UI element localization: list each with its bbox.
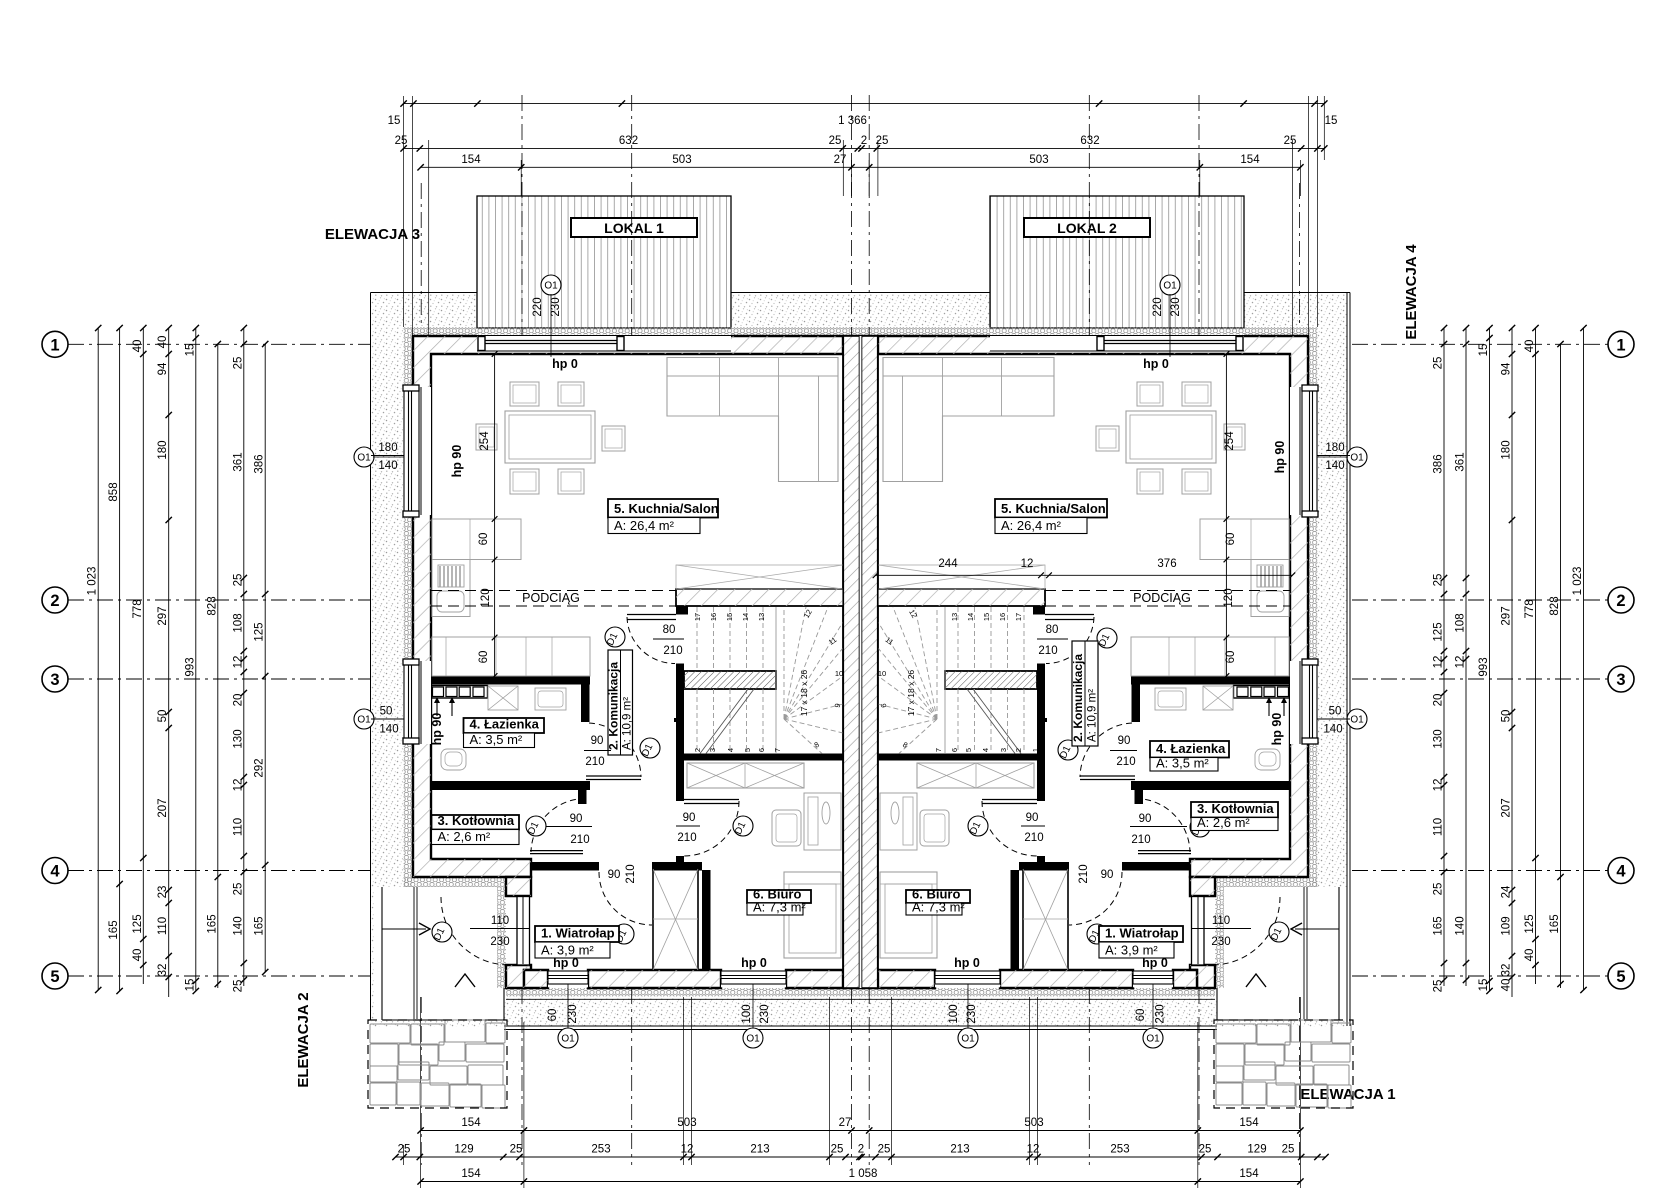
svg-text:110: 110: [232, 818, 244, 836]
insulation layer: [404, 327, 862, 336]
svg-text:hp 90: hp 90: [1273, 441, 1287, 474]
svg-text:154: 154: [1239, 1117, 1259, 1129]
stair treads lower flight: [696, 689, 698, 753]
room label wiatrolap right: [1099, 926, 1183, 942]
lazienka cabinet X: [488, 686, 518, 710]
svg-text:O1: O1: [544, 281, 558, 292]
svg-text:15: 15: [1478, 979, 1490, 992]
svg-text:A: 3,5 m²: A: 3,5 m²: [470, 732, 523, 747]
exterior walls: [413, 336, 843, 877]
svg-text:20: 20: [1433, 694, 1445, 707]
svg-text:17: 17: [1014, 613, 1023, 621]
svg-text:154: 154: [461, 154, 481, 166]
svg-text:230: 230: [567, 1004, 579, 1023]
lazienka door arc: [589, 723, 641, 777]
facade window W2 50/140: [404, 661, 431, 744]
bottom extension lines: [420, 997, 422, 1188]
band boundary: [371, 292, 478, 294]
window/door reference circles: [541, 275, 561, 295]
stair break line: [700, 689, 748, 754]
svg-text:2. Komunikacja: 2. Komunikacja: [607, 662, 621, 750]
svg-text:15: 15: [388, 115, 401, 127]
svg-text:125: 125: [254, 622, 266, 641]
svg-text:10: 10: [835, 669, 843, 678]
lazienka door leaf open: [586, 775, 641, 777]
svg-text:7: 7: [934, 748, 943, 752]
svg-text:108: 108: [232, 613, 244, 632]
porch step edge lines: [413, 887, 415, 1019]
svg-text:154: 154: [1239, 1168, 1259, 1180]
svg-text:90: 90: [608, 869, 621, 881]
svg-text:25: 25: [1199, 1144, 1212, 1156]
svg-text:32: 32: [157, 964, 169, 977]
door 80 arc (kitchen to stairs corridor): [627, 617, 675, 664]
svg-text:4: 4: [726, 748, 735, 752]
svg-text:PODCIĄG: PODCIĄG: [522, 591, 580, 605]
svg-text:165: 165: [206, 914, 218, 933]
window dim texts right wall: [1317, 455, 1350, 457]
svg-text:180: 180: [1501, 440, 1513, 459]
chairs: [510, 382, 539, 406]
stair winder treads (dashed fan): [783, 607, 785, 719]
svg-text:ELEWACJA 4: ELEWACJA 4: [1403, 244, 1420, 340]
top sliding window O1 220/230: [990, 335, 1244, 353]
svg-text:100: 100: [948, 1004, 960, 1023]
svg-text:hp 90: hp 90: [1270, 713, 1284, 746]
lazienka vanity: [432, 686, 488, 699]
svg-text:154: 154: [1240, 154, 1260, 166]
svg-text:210: 210: [625, 864, 637, 883]
svg-text:140: 140: [1323, 724, 1342, 736]
svg-text:14: 14: [966, 613, 975, 621]
biuro desk: [804, 793, 841, 850]
svg-text:230: 230: [490, 936, 509, 948]
svg-text:O1: O1: [961, 1034, 975, 1045]
partition kotlownia east: [578, 790, 587, 804]
room label komunikacja right: [1072, 641, 1098, 746]
svg-text:253: 253: [591, 1144, 610, 1156]
svg-text:hp 90: hp 90: [450, 445, 464, 478]
svg-text:40: 40: [132, 949, 144, 962]
svg-text:LOKAL 1: LOKAL 1: [604, 220, 664, 236]
right terrace: [990, 196, 1244, 328]
svg-text:15: 15: [184, 979, 196, 992]
svg-text:4: 4: [50, 863, 60, 881]
svg-text:5: 5: [743, 748, 752, 752]
svg-text:12: 12: [1455, 656, 1467, 669]
svg-text:165: 165: [108, 920, 120, 939]
svg-text:A: 26,4 m²: A: 26,4 m²: [1001, 518, 1062, 533]
svg-text:1 058: 1 058: [849, 1168, 878, 1180]
svg-text:25: 25: [232, 883, 244, 896]
right dimension columns: [1443, 328, 1445, 986]
window dim texts left wall: [371, 455, 404, 457]
svg-text:25: 25: [232, 357, 244, 370]
stair treads upper flight: [696, 607, 698, 671]
paving stones: [1216, 1024, 1256, 1043]
svg-text:3. Kotłownia: 3. Kotłownia: [438, 813, 515, 828]
svg-text:1. Wiatrołap: 1. Wiatrołap: [541, 926, 615, 941]
svg-text:297: 297: [1501, 606, 1513, 625]
svg-text:125: 125: [132, 914, 144, 933]
bottom window 60/230: [1133, 971, 1173, 988]
svg-text:3. Kotłownia: 3. Kotłownia: [1197, 801, 1274, 816]
svg-text:778: 778: [132, 599, 144, 618]
svg-text:90: 90: [570, 813, 583, 825]
svg-text:25: 25: [831, 1144, 844, 1156]
svg-text:1: 1: [677, 748, 686, 752]
bottom dim row A (154/503/27/503/154): [421, 1130, 1301, 1132]
room label kuchnia left: [608, 499, 718, 518]
kitchen dim chain right: [1225, 354, 1227, 676]
svg-text:6: 6: [757, 748, 766, 752]
svg-text:25: 25: [1282, 1144, 1295, 1156]
svg-text:hp 90: hp 90: [430, 713, 444, 746]
svg-text:361: 361: [232, 452, 244, 471]
svg-text:O1: O1: [746, 1034, 760, 1045]
svg-text:hp 0: hp 0: [741, 956, 767, 970]
svg-text:210: 210: [585, 756, 604, 768]
svg-text:O1: O1: [1350, 715, 1364, 726]
entrance door leaf 110/230: [517, 897, 530, 966]
svg-text:hp 0: hp 0: [552, 357, 578, 371]
svg-text:386: 386: [1433, 454, 1445, 473]
svg-text:40: 40: [1501, 979, 1513, 992]
svg-text:632: 632: [619, 135, 638, 147]
svg-text:90: 90: [683, 812, 696, 824]
svg-text:2: 2: [1616, 592, 1625, 610]
svg-text:hp 0: hp 0: [553, 956, 579, 970]
svg-text:210: 210: [677, 832, 696, 844]
svg-text:15: 15: [982, 613, 991, 621]
wiatrolap wardrobe: [653, 869, 698, 970]
room label lazienka left: [464, 718, 545, 733]
svg-text:210: 210: [1038, 645, 1057, 657]
svg-text:1. Wiatrołap: 1. Wiatrołap: [1105, 926, 1179, 941]
kitchen lower counter: [432, 637, 590, 676]
svg-text:hp 0: hp 0: [954, 956, 980, 970]
svg-text:60: 60: [1135, 1009, 1147, 1022]
svg-text:2: 2: [858, 1144, 864, 1156]
kotlownia door arc: [531, 798, 586, 852]
svg-text:778: 778: [1524, 599, 1536, 618]
svg-text:4. Łazienka: 4. Łazienka: [1156, 741, 1226, 756]
svg-text:140: 140: [379, 724, 398, 736]
room label lazienka right: [1150, 741, 1229, 758]
svg-text:O1: O1: [1146, 1034, 1160, 1045]
stair pivot: [674, 718, 678, 722]
svg-text:1: 1: [1616, 336, 1625, 354]
svg-text:O1: O1: [1163, 281, 1177, 292]
svg-text:1 366: 1 366: [838, 115, 867, 127]
dim 244/12/376 (right unit): [876, 574, 1293, 576]
svg-text:A: 10,9 m²: A: 10,9 m²: [622, 697, 634, 750]
svg-text:LOKAL 2: LOKAL 2: [1057, 220, 1117, 236]
partition lazienka north: [430, 676, 590, 685]
svg-text:O1: O1: [1350, 453, 1364, 464]
top dim row 3 (154/503/27/503/154): [421, 166, 1301, 168]
partition lazienka east: [581, 685, 590, 723]
svg-text:25: 25: [395, 135, 408, 147]
svg-text:O1: O1: [357, 453, 371, 464]
svg-text:220: 220: [532, 297, 544, 316]
svg-text:4: 4: [981, 748, 990, 752]
svg-text:12: 12: [232, 656, 244, 669]
svg-text:230: 230: [1211, 936, 1230, 948]
beam strip above stairs with X: [676, 565, 843, 589]
bottom dim row B: [396, 1156, 1326, 1158]
svg-text:129: 129: [454, 1144, 473, 1156]
bottom window 100/230: [935, 971, 1000, 988]
svg-text:125: 125: [1524, 914, 1536, 933]
svg-text:90: 90: [1101, 869, 1114, 881]
gravel band around building: [371, 293, 1347, 1027]
svg-text:4. Łazienka: 4. Łazienka: [470, 717, 540, 732]
svg-text:210: 210: [1131, 834, 1150, 846]
svg-text:ELEWACJA 2: ELEWACJA 2: [295, 992, 312, 1087]
party wall dilatation gap: [860, 336, 862, 988]
svg-text:25: 25: [1284, 135, 1297, 147]
svg-text:17: 17: [693, 613, 702, 621]
svg-text:25: 25: [1433, 357, 1445, 370]
svg-text:130: 130: [1433, 729, 1445, 748]
svg-text:210: 210: [1078, 864, 1090, 883]
facade window W2 50/140: [1290, 661, 1317, 744]
porch step arrow: [455, 974, 475, 987]
svg-text:15: 15: [725, 613, 734, 621]
svg-text:40: 40: [1524, 340, 1536, 353]
svg-text:3: 3: [50, 671, 59, 689]
WC: [441, 749, 466, 770]
svg-text:5. Kuchnia/Salon: 5. Kuchnia/Salon: [1001, 501, 1106, 516]
biuro bed: [784, 872, 841, 958]
svg-text:140: 140: [1455, 916, 1467, 935]
horizontal grid axes 1-5: [68, 343, 370, 345]
svg-text:60: 60: [478, 533, 490, 546]
wall hatch overlay: [413, 336, 843, 877]
svg-text:125: 125: [1433, 622, 1445, 641]
kitchen tall appliance + sink: [432, 560, 470, 617]
kitchen upper counter: [432, 519, 521, 560]
stair top wall (hatched): [676, 589, 843, 606]
svg-text:5: 5: [1616, 968, 1625, 986]
room label kotlownia right: [1191, 802, 1278, 818]
svg-text:210: 210: [663, 645, 682, 657]
stair south wall: [684, 754, 843, 761]
svg-text:230: 230: [759, 1004, 771, 1023]
svg-text:12: 12: [232, 779, 244, 792]
svg-text:A: 2,6 m²: A: 2,6 m²: [1197, 815, 1250, 830]
svg-text:2: 2: [693, 748, 702, 752]
svg-text:16: 16: [998, 613, 1007, 621]
svg-text:244: 244: [938, 558, 958, 570]
svg-text:20: 20: [232, 694, 244, 707]
svg-text:230: 230: [550, 297, 562, 316]
svg-text:50: 50: [1329, 706, 1342, 718]
svg-text:154: 154: [461, 1168, 481, 1180]
podciag dashed beam lines left unit: [431, 590, 676, 592]
svg-text:12: 12: [1433, 779, 1445, 792]
svg-text:254: 254: [479, 431, 491, 451]
svg-text:253: 253: [1110, 1144, 1129, 1156]
svg-text:hp 0: hp 0: [1143, 357, 1169, 371]
svg-text:1: 1: [1031, 748, 1040, 752]
svg-text:632: 632: [1080, 135, 1099, 147]
svg-text:230: 230: [1170, 297, 1182, 316]
vanity drain arrows: [436, 699, 438, 716]
svg-text:210: 210: [570, 834, 589, 846]
wiatrolap north wall: [531, 862, 599, 871]
room label wiatrolap left: [535, 926, 619, 942]
wiatrolap door arc: [599, 872, 652, 925]
svg-text:A: 3,5 m²: A: 3,5 m²: [1156, 756, 1209, 771]
svg-text:13: 13: [757, 613, 766, 621]
svg-text:386: 386: [254, 454, 266, 473]
svg-text:50: 50: [1501, 710, 1513, 723]
svg-text:O1: O1: [561, 1034, 575, 1045]
svg-text:90: 90: [1139, 813, 1152, 825]
svg-text:PODCIĄG: PODCIĄG: [1133, 591, 1191, 605]
svg-text:ELEWACJA 1: ELEWACJA 1: [1300, 1086, 1395, 1103]
biuro door arc: [684, 801, 739, 856]
svg-text:60: 60: [1225, 651, 1237, 664]
svg-text:O1: O1: [357, 715, 371, 726]
biuro wardrobe: [687, 763, 804, 788]
O1 leader lines: [550, 294, 552, 357]
svg-text:12: 12: [1021, 558, 1034, 570]
svg-text:12: 12: [1433, 656, 1445, 669]
svg-text:5. Kuchnia/Salon: 5. Kuchnia/Salon: [614, 501, 719, 516]
svg-text:3: 3: [999, 748, 1008, 752]
kotlownia door leaf open: [530, 850, 583, 852]
svg-text:1 023: 1 023: [87, 567, 99, 596]
shower: [535, 688, 566, 710]
svg-text:25: 25: [510, 1144, 523, 1156]
svg-text:90: 90: [1118, 735, 1131, 747]
svg-text:828: 828: [1549, 596, 1561, 615]
svg-text:207: 207: [1501, 798, 1513, 817]
svg-text:2: 2: [1014, 748, 1023, 752]
svg-text:90: 90: [1026, 812, 1039, 824]
svg-text:108: 108: [1455, 613, 1467, 632]
svg-text:230: 230: [1155, 1004, 1167, 1023]
svg-text:213: 213: [950, 1144, 969, 1156]
paving stones: [370, 1024, 410, 1043]
svg-text:27: 27: [839, 1117, 852, 1129]
svg-text:17 x 18 x 26: 17 x 18 x 26: [906, 670, 916, 717]
svg-text:503: 503: [1029, 154, 1048, 166]
svg-text:110: 110: [1433, 818, 1445, 836]
svg-text:993: 993: [184, 657, 196, 676]
svg-text:80: 80: [663, 624, 676, 636]
svg-text:15: 15: [1478, 344, 1490, 357]
bottom dim row C (154/1058/154): [421, 1181, 1301, 1183]
svg-text:109: 109: [1501, 916, 1513, 935]
svg-text:32: 32: [1501, 964, 1513, 977]
svg-text:hp 0: hp 0: [1142, 956, 1168, 970]
LOKAL 1 box: [571, 218, 697, 237]
svg-text:94: 94: [157, 362, 169, 375]
svg-text:3: 3: [708, 748, 717, 752]
bottom window 100/230: [721, 971, 786, 988]
left terrace: [477, 196, 731, 328]
svg-text:7: 7: [773, 748, 782, 752]
room label biuro right: [906, 890, 970, 903]
svg-text:60: 60: [547, 1009, 559, 1022]
svg-text:213: 213: [750, 1144, 769, 1156]
svg-text:297: 297: [157, 606, 169, 625]
svg-text:220: 220: [1152, 297, 1164, 316]
svg-text:140: 140: [232, 916, 244, 935]
entrance door arc: [441, 897, 509, 965]
left dimension columns: [97, 328, 99, 990]
svg-text:2: 2: [50, 592, 59, 610]
room label kotlownia left: [432, 815, 520, 830]
LOKAL 2 box: [1024, 218, 1150, 237]
svg-text:A: 2,6 m²: A: 2,6 m²: [438, 829, 491, 844]
dining table: [505, 411, 595, 463]
svg-text:A: 7,3 m²: A: 7,3 m²: [912, 900, 965, 915]
svg-text:993: 993: [1478, 657, 1490, 676]
svg-text:100: 100: [741, 1004, 753, 1023]
svg-text:210: 210: [1116, 756, 1135, 768]
svg-text:210: 210: [1024, 832, 1043, 844]
svg-text:180: 180: [1325, 442, 1344, 454]
top sliding window O1 220/230: [477, 335, 731, 353]
svg-text:110: 110: [491, 915, 509, 927]
porch entry arrow: [382, 928, 426, 930]
svg-text:25: 25: [876, 135, 889, 147]
svg-text:2. Komunikacja: 2. Komunikacja: [1071, 654, 1085, 742]
svg-text:5: 5: [964, 748, 973, 752]
svg-text:40: 40: [157, 336, 169, 349]
partition kotlownia north: [430, 781, 590, 790]
kitchen dim chain left: [494, 354, 496, 676]
biuro chair: [772, 810, 801, 846]
facade window W1 180/140: [404, 387, 431, 515]
svg-text:154: 154: [461, 1117, 481, 1129]
svg-text:207: 207: [157, 798, 169, 817]
sofa L-shape: [667, 358, 838, 482]
svg-text:140: 140: [378, 460, 397, 472]
svg-text:110: 110: [1212, 915, 1230, 927]
svg-text:361: 361: [1455, 452, 1467, 471]
stair landing hatched bar: [684, 671, 776, 689]
svg-text:503: 503: [677, 1117, 696, 1129]
svg-text:25: 25: [1433, 883, 1445, 896]
top extension lines: [403, 96, 405, 327]
svg-text:25: 25: [878, 1144, 891, 1156]
svg-text:ELEWACJA 3: ELEWACJA 3: [325, 226, 420, 243]
room label komunikacja left: [608, 650, 633, 755]
svg-text:2: 2: [861, 135, 867, 147]
bottom window 60/230: [548, 971, 588, 988]
wiatrolap east wall: [702, 870, 711, 970]
svg-text:1 023: 1 023: [1572, 567, 1584, 596]
svg-text:230: 230: [966, 1004, 978, 1023]
svg-text:A: 7,3 m²: A: 7,3 m²: [753, 900, 806, 915]
svg-text:503: 503: [1024, 1117, 1043, 1129]
svg-text:129: 129: [1247, 1144, 1266, 1156]
svg-text:80: 80: [1046, 624, 1059, 636]
vertical axes: [521, 95, 523, 336]
svg-text:60: 60: [478, 651, 490, 664]
svg-text:15: 15: [1325, 115, 1338, 127]
svg-text:180: 180: [378, 442, 397, 454]
svg-text:25: 25: [829, 135, 842, 147]
svg-text:4: 4: [1616, 863, 1626, 881]
svg-text:16: 16: [709, 613, 718, 621]
